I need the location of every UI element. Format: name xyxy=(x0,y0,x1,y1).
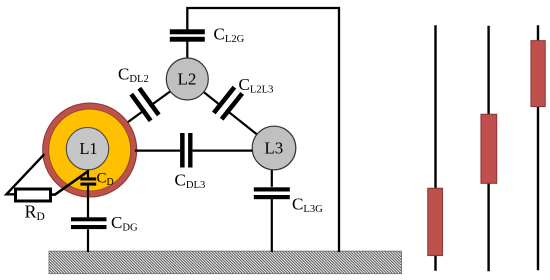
svg-text:CL2G: CL2G xyxy=(214,25,245,46)
svg-text:CDL2: CDL2 xyxy=(118,64,149,85)
svg-text:CDL3: CDL3 xyxy=(175,170,206,191)
L3 circle xyxy=(252,126,296,170)
svg-text:CDG: CDG xyxy=(111,213,138,234)
wire top loop xyxy=(187,8,339,252)
svg-text:RD: RD xyxy=(25,202,45,224)
rod 3 wire xyxy=(537,25,539,270)
capacitor CL2L3 xyxy=(212,86,244,121)
wire drain vertical xyxy=(87,170,89,253)
L1 orange disc xyxy=(49,109,131,191)
wire CL3G to ground xyxy=(271,199,273,252)
wire L2-L3 xyxy=(187,79,274,148)
capacitor CDL2 xyxy=(129,87,160,122)
rod 1 red bar xyxy=(428,188,443,255)
rod 1 wire xyxy=(434,25,436,270)
wire L1-L3 left segment xyxy=(135,150,180,152)
L1 gray core xyxy=(66,128,108,170)
resistor RD xyxy=(16,189,51,201)
wire L2 stem xyxy=(186,42,188,63)
capacitor CDG xyxy=(71,217,107,229)
capacitor CL3G xyxy=(254,187,290,199)
L2 circle xyxy=(166,58,208,100)
wire L3 to CL3G xyxy=(271,148,273,187)
rod 3 red bar xyxy=(531,41,545,107)
capacitor CDL3 xyxy=(180,133,192,168)
wire L1-L2 xyxy=(90,79,188,150)
svg-text:L1: L1 xyxy=(79,139,97,158)
wire RD left diagonal xyxy=(6,154,44,194)
wire RD right diagonal xyxy=(52,171,89,194)
capacitor CL2G xyxy=(170,29,205,41)
svg-text:L3: L3 xyxy=(264,139,283,158)
svg-text:CL3G: CL3G xyxy=(292,194,323,215)
rod 2 red bar xyxy=(481,114,497,183)
svg-text:CL2L3: CL2L3 xyxy=(239,75,274,96)
rod 2 wire xyxy=(487,26,489,271)
svg-text:L2: L2 xyxy=(178,70,197,89)
capacitor CD xyxy=(80,177,96,185)
wire L1-L3 right segment xyxy=(193,150,253,152)
ground xyxy=(49,251,402,273)
L1 outer ring xyxy=(43,103,137,197)
